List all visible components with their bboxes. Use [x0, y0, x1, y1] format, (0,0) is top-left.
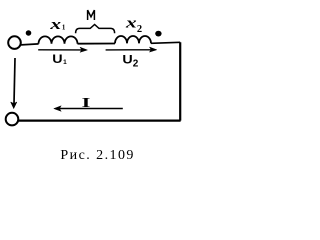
- inductor x1: [39, 36, 78, 43]
- label M: [88, 10, 95, 20]
- svg-text:x: x: [125, 14, 137, 30]
- arrow: voltage U2: [106, 49, 151, 51]
- label x1: [49, 16, 61, 32]
- svg-text:1: 1: [63, 59, 67, 66]
- wire from top terminal to inductor x1: [21, 44, 39, 45]
- label U1: [52, 52, 62, 66]
- label x2: [125, 14, 137, 30]
- svg-text:Рис. 2.109: Рис. 2.109: [60, 148, 134, 163]
- svg-text:I: I: [82, 95, 91, 111]
- arrow: voltage U1: [38, 49, 81, 51]
- arrowhead down toward bottom terminal: [11, 102, 17, 108]
- arrow: current I on bottom wire: [60, 108, 123, 110]
- terminal circle (bottom-left): [6, 113, 19, 126]
- wire left vertical: [14, 58, 15, 104]
- wire from inductor x2 to top-right corner: [151, 42, 180, 43]
- svg-text:1: 1: [62, 24, 66, 32]
- terminal circle (top-left source terminal): [8, 36, 21, 49]
- wire right vertical: [179, 42, 181, 120]
- label I: [82, 95, 91, 111]
- polarity dot of winding 2: [155, 31, 161, 37]
- inductor x2: [115, 36, 151, 43]
- svg-text:2: 2: [137, 24, 142, 35]
- wire bottom horizontal: [18, 119, 180, 121]
- svg-text:2: 2: [133, 59, 139, 70]
- label U2: [122, 52, 132, 66]
- polarity dot of winding 1: [26, 30, 32, 35]
- svg-text:U: U: [122, 52, 132, 66]
- mutual coupling brace M: [76, 25, 115, 34]
- svg-text:U: U: [52, 52, 62, 66]
- svg-text:x: x: [49, 16, 61, 32]
- wire between inductors: [78, 43, 116, 45]
